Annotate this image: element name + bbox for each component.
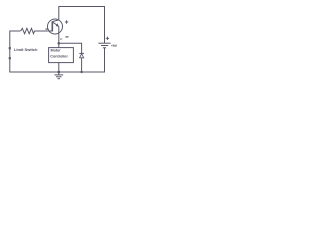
svg-text:C: C <box>60 37 63 41</box>
svg-text:Limit Switch: Limit Switch <box>14 47 38 52</box>
wire collector to controller <box>58 43 60 47</box>
resistor R1 <box>21 28 48 33</box>
transistor Q1 <box>48 19 63 43</box>
wire collector to diode <box>59 43 82 53</box>
svg-text:Controller: Controller <box>50 55 68 59</box>
svg-text:Motor: Motor <box>51 49 62 53</box>
node collector junction <box>58 42 61 45</box>
ground <box>54 72 63 79</box>
wire bottom rail <box>59 48 105 72</box>
limit switch S1 <box>9 47 11 59</box>
node ground junction <box>57 71 60 74</box>
wire controller to ground rail <box>58 63 60 72</box>
battery BT1 <box>98 43 110 48</box>
svg-text:+9V: +9V <box>111 44 118 48</box>
wire base left <box>10 31 21 47</box>
diode D1 <box>79 53 84 72</box>
label - collector <box>65 36 68 38</box>
wire top rail <box>59 7 105 44</box>
wire left rail to bottom <box>10 59 59 72</box>
label + emitter <box>65 20 68 23</box>
motor controller box U1 <box>49 48 74 63</box>
node diode junction <box>80 71 82 73</box>
label + battery <box>106 37 109 40</box>
